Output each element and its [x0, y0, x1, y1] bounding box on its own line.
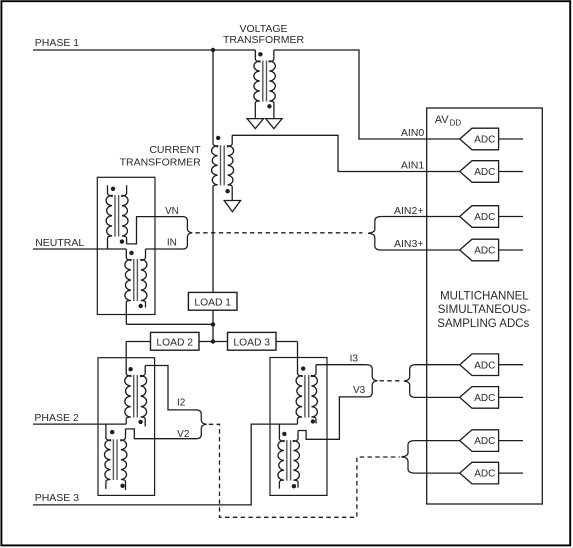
- transformer T6 core: [112, 439, 114, 480]
- wire LOAD1 vertical below box: [212, 310, 214, 341]
- transformer T8 primary polarity dot: [282, 432, 286, 436]
- svg-text:TRANSFORMER: TRANSFORMER: [223, 34, 305, 46]
- transformer T7 secondary polarity dot: [311, 419, 315, 423]
- brace grouping I3 and V3: [367, 365, 378, 397]
- transformer T1 core: [262, 61, 264, 102]
- svg-text:ADC: ADC: [474, 360, 495, 371]
- svg-text:DD: DD: [450, 119, 462, 128]
- wire LOAD3 to phase-3 CT: [276, 341, 298, 343]
- op-amp ADC U7: [460, 430, 499, 452]
- brace splitting I3/V3 to ADC pair: [404, 365, 416, 398]
- wire output of ADC U1: [499, 138, 523, 140]
- transformer T3 secondary winding: [122, 185, 128, 244]
- enclosure box of neutral transformers: [97, 177, 155, 314]
- wire AIN3+ input: [381, 249, 459, 251]
- svg-text:NEUTRAL: NEUTRAL: [35, 237, 84, 249]
- wire input to ADC U7: [415, 440, 460, 442]
- transformer T3 core: [114, 195, 116, 237]
- transformer T3 primary winding (neutral VT): [106, 185, 112, 249]
- svg-text:MULTICHANNEL: MULTICHANNEL: [440, 290, 529, 302]
- transformer T7 primary winding (phase-3 CT): [296, 342, 302, 425]
- transformer T7 core: [304, 375, 306, 418]
- svg-text:SAMPLING ADCs: SAMPLING ADCs: [437, 318, 529, 330]
- svg-text:PHASE 3: PHASE 3: [35, 492, 80, 504]
- brace grouping I2 and V2: [196, 410, 207, 439]
- brace grouping VN and IN: [183, 217, 193, 249]
- op-amp ADC U8: [460, 462, 499, 484]
- svg-text:I3: I3: [350, 354, 359, 365]
- transformer T5 core: [133, 375, 135, 418]
- transformer T1 primary winding: [254, 50, 260, 118]
- svg-text:TRANSFORMER: TRANSFORMER: [120, 156, 202, 168]
- svg-text:AIN0: AIN0: [401, 127, 425, 139]
- transformer T3 secondary polarity dot: [120, 239, 124, 243]
- transformer T4 secondary polarity dot: [139, 304, 143, 308]
- svg-text:LOAD 3: LOAD 3: [233, 337, 270, 348]
- dashed wire I3/V3 pair: [380, 380, 403, 382]
- transformer T2 primary winding in series with phase-1 drop wire: [212, 50, 218, 292]
- op-amp ADC U6: [460, 387, 499, 409]
- svg-text:ADC: ADC: [474, 135, 495, 146]
- svg-text:CURRENT: CURRENT: [149, 144, 201, 156]
- svg-text:ADC: ADC: [474, 436, 495, 447]
- wire output of ADC U5: [499, 364, 523, 366]
- transformer T7 primary polarity dot: [301, 366, 305, 370]
- wire I3 from T7 secondary: [316, 364, 367, 366]
- arrow under T1 secondary: [266, 119, 282, 129]
- wire PHASE 2 from left border: [33, 423, 126, 425]
- transformer T6 primary winding (phase-2 VT): [104, 424, 110, 489]
- svg-text:LOAD 2: LOAD 2: [156, 337, 193, 348]
- arrow under T1 primary: [247, 119, 263, 129]
- svg-text:ADC: ADC: [474, 246, 495, 257]
- transformer T2 primary polarity dot: [216, 136, 220, 140]
- wire PHASE 3 from left border up to phase-3 CT: [33, 424, 298, 505]
- svg-text:IN: IN: [167, 238, 177, 249]
- svg-text:ADC: ADC: [474, 469, 495, 480]
- svg-text:AV: AV: [435, 114, 450, 126]
- node junction PHASE1/current-transformer tap: [211, 48, 215, 52]
- wire output of ADC U3: [499, 216, 523, 218]
- transformer T6 secondary winding: [121, 429, 127, 490]
- wire I2 from T5 secondary: [145, 366, 196, 410]
- wire PHASE 1 from left border to voltage transformer T1 primary: [33, 49, 255, 51]
- wire input to ADC U6: [416, 396, 460, 398]
- wire LOAD2 to phase-2 CT: [126, 341, 150, 343]
- wire AIN2+ input: [381, 216, 459, 218]
- arrow under T2 secondary: [224, 201, 240, 212]
- node junction LOAD2/LOAD3 tie: [211, 339, 215, 343]
- transformer T5 primary winding (phase-2 CT): [125, 342, 131, 425]
- wire VN from T3 secondary: [127, 217, 183, 244]
- wire input to ADC U8: [415, 472, 460, 474]
- transformer T6 secondary polarity dot: [120, 484, 124, 488]
- transformer T8 primary winding (phase-3 VT): [278, 424, 284, 489]
- wire output of ADC U7: [499, 440, 523, 442]
- wire V2 from T6 secondary: [126, 429, 197, 439]
- brace splitting to AIN2+ AIN3+: [368, 217, 381, 251]
- transformer T2 core: [220, 145, 222, 185]
- transformer T4 primary polarity dot: [129, 251, 133, 255]
- transformer T7 secondary winding: [311, 365, 317, 424]
- transformer T5 secondary winding: [141, 366, 147, 427]
- dashed wire VN/IN pair to ADC inputs: [195, 232, 362, 234]
- transformer T3 primary polarity dot: [111, 187, 115, 191]
- svg-text:V3: V3: [353, 385, 366, 396]
- wire output of ADC U2: [499, 171, 523, 173]
- svg-text:AIN1: AIN1: [401, 159, 425, 171]
- node junction load wire / LOAD1 line: [211, 322, 215, 326]
- wire output of ADC U8: [499, 472, 523, 474]
- wire between LOAD2 and LOAD3: [199, 341, 228, 343]
- transformer T1 secondary polarity dot: [267, 104, 271, 108]
- svg-text:SIMULTANEOUS-: SIMULTANEOUS-: [438, 304, 531, 316]
- svg-text:PHASE 2: PHASE 2: [34, 412, 79, 424]
- svg-text:I2: I2: [177, 397, 186, 408]
- transformer T4 secondary winding: [141, 249, 147, 308]
- wire output of ADC U6: [499, 396, 523, 398]
- svg-text:PHASE 1: PHASE 1: [35, 37, 80, 49]
- wire input to ADC U5: [416, 364, 460, 366]
- transformer T5 primary polarity dot: [128, 367, 132, 371]
- svg-text:AIN3+: AIN3+: [394, 238, 423, 250]
- op-amp ADC U3: [460, 206, 499, 228]
- svg-text:ADC: ADC: [474, 393, 495, 404]
- svg-text:AIN2+: AIN2+: [394, 205, 423, 217]
- op-amp ADC U2: [460, 161, 499, 183]
- svg-text:ADC: ADC: [474, 212, 495, 223]
- load box LOAD 3: [228, 332, 277, 350]
- load box LOAD 2: [151, 332, 200, 350]
- load box LOAD 1: [188, 292, 237, 310]
- op-amp ADC U4: [460, 239, 499, 261]
- svg-text:ADC: ADC: [474, 167, 495, 178]
- wire T1 secondary to AIN0 input: [274, 50, 460, 139]
- svg-text:V2: V2: [177, 429, 190, 440]
- svg-text:LOAD 1: LOAD 1: [194, 298, 231, 309]
- transformer T4 core: [133, 259, 135, 301]
- transformer T8 core: [286, 440, 288, 481]
- wire IN from T4 secondary: [146, 248, 183, 250]
- wire T2 secondary to AIN1 input: [232, 135, 460, 171]
- wire output of ADC U4: [499, 249, 523, 251]
- brace splitting I2/V2 to ADC pair: [401, 441, 414, 474]
- ADC block box: [427, 108, 543, 504]
- svg-text:VN: VN: [165, 206, 179, 217]
- transformer T1 primary polarity dot: [258, 52, 262, 56]
- op-amp ADC U5: [460, 354, 499, 376]
- enclosure box of phase-2 transformers: [98, 358, 155, 496]
- transformer T6 primary polarity dot: [110, 430, 114, 434]
- transformer T5 secondary polarity dot: [138, 420, 142, 424]
- transformer T2 secondary winding: [228, 135, 234, 200]
- wire T4 primary to LOAD 1 node: [126, 323, 213, 325]
- transformer T8 secondary polarity dot: [292, 484, 296, 488]
- transformer T1 secondary winding: [269, 50, 275, 118]
- enclosure box of phase-3 transformers: [270, 358, 327, 496]
- dashed wire I2/V2 pair routed to bottom ADC pair: [209, 424, 400, 517]
- transformer T2 secondary polarity dot: [225, 189, 229, 193]
- transformer T8 secondary winding: [293, 431, 299, 488]
- op-amp ADC U1: [460, 128, 499, 150]
- transformer T4 primary winding (neutral CT): [125, 249, 131, 324]
- wire NEUTRAL from left border: [33, 248, 126, 250]
- wire V3 from T8 secondary: [298, 397, 367, 439]
